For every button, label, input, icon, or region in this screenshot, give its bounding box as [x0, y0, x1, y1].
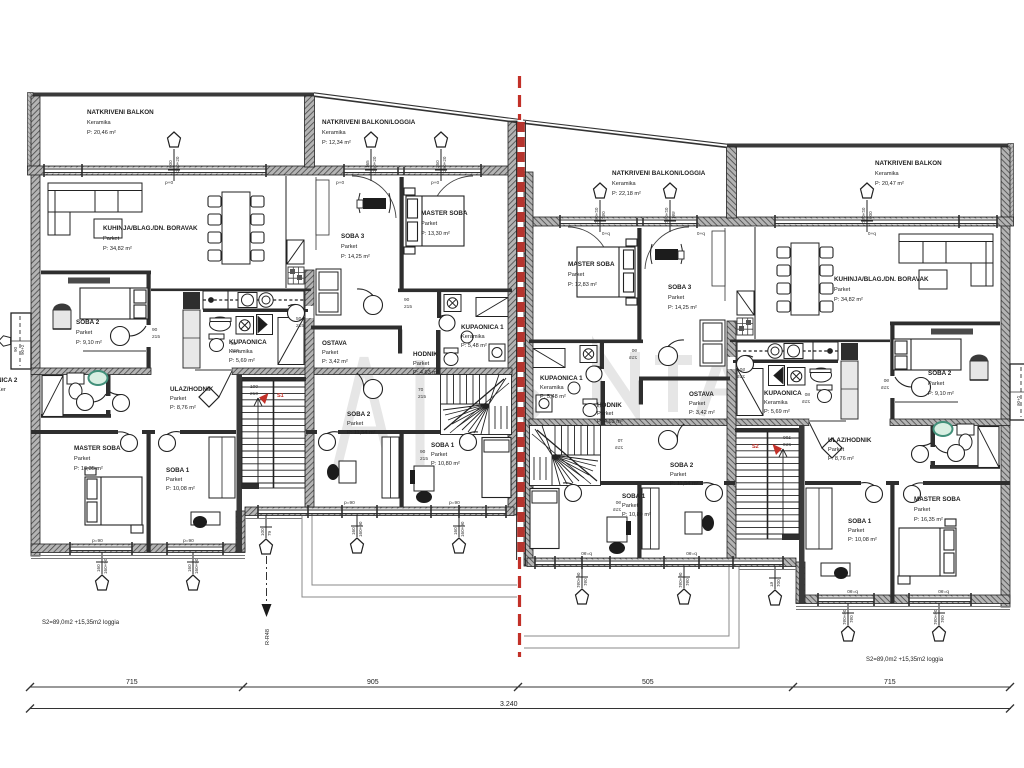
svg-text:90: 90 — [420, 449, 426, 455]
svg-text:79: 79 — [267, 530, 272, 536]
svg-text:SOBA 1: SOBA 1 — [848, 518, 872, 525]
section marker R-R48 — [262, 556, 272, 645]
svg-text:Parket: Parket — [670, 472, 687, 478]
svg-text:P: 11,54 m²: P: 11,54 m² — [670, 481, 699, 487]
svg-text:250: 250 — [435, 160, 440, 168]
top parapet wall — [29, 93, 314, 97]
svg-text:p=90: p=90 — [92, 538, 103, 544]
svg-text:p+0: p+0 — [336, 180, 344, 186]
svg-text:Parket: Parket — [322, 350, 339, 356]
svg-text:90: 90 — [152, 327, 158, 333]
svg-text:OSTAVA: OSTAVA — [689, 391, 714, 398]
svg-text:90: 90 — [404, 297, 410, 303]
svg-text:Keramika: Keramika — [87, 120, 112, 126]
svg-text:50: 50 — [296, 316, 302, 322]
svg-text:KUHINJA/BLAG./DN. BORAVAK: KUHINJA/BLAG./DN. BORAVAK — [103, 225, 198, 232]
svg-text:Parket: Parket — [421, 221, 438, 227]
svg-text:SOBA 1: SOBA 1 — [622, 493, 646, 500]
svg-text:NICA 2: NICA 2 — [0, 377, 18, 384]
svg-text:100: 100 — [260, 528, 265, 536]
window bay left — [0, 313, 31, 369]
soba1-c bed/desk — [482, 438, 511, 498]
svg-text:Parket: Parket — [76, 330, 93, 336]
svg-text:250+20: 250+20 — [442, 156, 447, 172]
svg-text:P: 8,76 m²: P: 8,76 m² — [170, 405, 196, 411]
terrace outline — [302, 516, 517, 597]
svg-text:MASTER SOBA: MASTER SOBA — [914, 496, 961, 503]
rotated dim texts at pentagons — [13, 156, 465, 574]
bath2 fixtures — [42, 376, 63, 417]
SOBA3 closet lines — [315, 177, 317, 250]
svg-text:90: 90 — [13, 346, 18, 352]
svg-text:P: 22,18 m²: P: 22,18 m² — [612, 191, 641, 197]
svg-text:P: 20,46 m²: P: 20,46 m² — [87, 130, 116, 136]
svg-text:215: 215 — [404, 304, 412, 310]
svg-text:P: 34,82 m²: P: 34,82 m² — [834, 297, 863, 303]
soba1-left wardrobe/desk — [209, 437, 235, 498]
svg-text:P: 4,63 m²: P: 4,63 m² — [597, 419, 623, 425]
svg-text:P: 4,63 m²: P: 4,63 m² — [413, 370, 439, 376]
fridge block — [316, 269, 341, 315]
svg-text:NATKRIVENI BALKON: NATKRIVENI BALKON — [87, 109, 154, 116]
svg-text:Parket: Parket — [166, 477, 183, 483]
svg-text:215: 215 — [296, 323, 304, 329]
svg-text:Keramika: Keramika — [540, 385, 565, 391]
svg-text:160+90: 160+90 — [194, 558, 199, 574]
room labels left — [0, 109, 504, 492]
svg-text:210: 210 — [250, 391, 258, 397]
svg-text:160+90: 160+90 — [103, 558, 108, 574]
svg-text:P: 34,82 m²: P: 34,82 m² — [103, 246, 132, 252]
svg-text:P: 16,35 m²: P: 16,35 m² — [74, 466, 103, 472]
svg-text:250+20: 250+20 — [175, 156, 180, 172]
svg-text:P: 8,76 m²: P: 8,76 m² — [828, 456, 854, 462]
svg-text:MASTER SOBA: MASTER SOBA — [568, 261, 615, 268]
balcony doors opening — [344, 167, 481, 175]
svg-text:215: 215 — [420, 456, 428, 462]
balcony door swing arcs — [352, 176, 396, 218]
soba2-c desk/wardrobe — [339, 461, 356, 483]
svg-text:505: 505 — [642, 679, 654, 686]
SOBA3 tv — [363, 198, 386, 209]
svg-text:Parket: Parket — [103, 236, 120, 242]
svg-text:Parket: Parket — [413, 361, 430, 367]
svg-text:100: 100 — [250, 384, 258, 390]
window ticks — [44, 164, 506, 555]
svg-text:165: 165 — [365, 160, 370, 168]
svg-text:p+0: p+0 — [431, 180, 439, 186]
svg-text:P: 9,10 m²: P: 9,10 m² — [76, 340, 102, 346]
svg-text:KUHINJA/BLAG./DN. BORAVAK: KUHINJA/BLAG./DN. BORAVAK — [834, 276, 929, 283]
svg-text:SOBA 2: SOBA 2 — [928, 370, 952, 377]
svg-text:90+2: 90+2 — [20, 344, 25, 355]
svg-text:715: 715 — [126, 679, 138, 686]
small labels — [92, 180, 460, 544]
svg-text:P: 14,25 m²: P: 14,25 m² — [341, 254, 370, 260]
svg-text:250+20: 250+20 — [372, 156, 377, 172]
svg-text:160+90: 160+90 — [460, 521, 465, 537]
stair bay left wall — [237, 374, 243, 552]
svg-text:NATKRIVENI BALKON/LOGGIA: NATKRIVENI BALKON/LOGGIA — [322, 119, 416, 126]
svg-text:Keramika: Keramika — [612, 181, 637, 187]
svg-text:MASTER SOBA: MASTER SOBA — [74, 445, 121, 452]
party-side wall of unit — [508, 121, 517, 515]
central vertical hatched wall — [305, 270, 314, 507]
svg-text:SOBA 3: SOBA 3 — [668, 284, 692, 291]
dimension lines — [26, 683, 1014, 713]
svg-text:P: 12,34 m²: P: 12,34 m² — [322, 140, 351, 146]
svg-text:P: 5,69 m²: P: 5,69 m² — [764, 409, 790, 415]
watermark — [337, 352, 744, 468]
svg-text:Parket: Parket — [597, 411, 614, 417]
red entrance arrow — [259, 393, 269, 404]
party wall red band — [517, 121, 526, 566]
svg-text:Keramika: Keramika — [322, 130, 347, 136]
window in balcony wall — [44, 168, 266, 174]
svg-text:P: 16,35 m²: P: 16,35 m² — [914, 517, 943, 523]
svg-text:160: 160 — [453, 527, 458, 535]
svg-text:p=90: p=90 — [183, 538, 194, 544]
svg-text:P: 3,42 m²: P: 3,42 m² — [322, 359, 348, 365]
room labels right — [540, 160, 961, 543]
svg-text:Keramika: Keramika — [461, 334, 486, 340]
svg-text:MASTER SOBA: MASTER SOBA — [421, 210, 468, 217]
svg-text:NATKRIVENI BALKON/LOGGIA: NATKRIVENI BALKON/LOGGIA — [612, 170, 706, 177]
svg-text:Parket: Parket — [848, 528, 865, 534]
svg-text:P: 12,83 m²: P: 12,83 m² — [568, 282, 597, 288]
svg-text:S1: S1 — [277, 393, 284, 399]
balcony bottom wall — [28, 166, 517, 175]
svg-text:Parket: Parket — [170, 396, 187, 402]
svg-text:Parket: Parket — [914, 507, 931, 513]
svg-text:P: 13,30 m²: P: 13,30 m² — [421, 231, 450, 237]
interior hatched wall mid — [31, 368, 151, 375]
furniture: living room — [48, 176, 304, 288]
red centerline dashes — [518, 76, 521, 120]
svg-text:715: 715 — [884, 679, 896, 686]
svg-text:P: 10,08 m²: P: 10,08 m² — [848, 537, 877, 543]
svg-text:P: 5,69 m²: P: 5,69 m² — [229, 358, 255, 364]
left exterior wall — [31, 96, 40, 556]
svg-text:SOBA 2: SOBA 2 — [670, 462, 694, 469]
svg-text:KUPAONICA: KUPAONICA — [229, 339, 267, 346]
svg-text:SOBA 1: SOBA 1 — [431, 442, 455, 449]
kitchen counter — [203, 291, 304, 309]
winder staircase — [441, 375, 512, 435]
svg-text:Parket: Parket — [928, 381, 945, 387]
svg-text:P: 11,54 m²: P: 11,54 m² — [347, 430, 376, 436]
svg-text:P: 5,48 m²: P: 5,48 m² — [540, 394, 566, 400]
svg-text:KUPAONICA 1: KUPAONICA 1 — [540, 375, 583, 382]
tall cupboard — [183, 310, 200, 368]
svg-text:Ker: Ker — [0, 387, 6, 393]
svg-text:600: 600 — [168, 160, 173, 168]
svg-text:P: 14,25 m²: P: 14,25 m² — [668, 305, 697, 311]
svg-text:Parket: Parket — [74, 456, 91, 462]
svg-text:ULAZ/HODNIK: ULAZ/HODNIK — [828, 437, 872, 444]
svg-text:Keramika: Keramika — [229, 349, 254, 355]
svg-text:SOBA 2: SOBA 2 — [347, 411, 371, 418]
svg-text:160: 160 — [187, 564, 192, 572]
svg-text:160: 160 — [351, 527, 356, 535]
step wall between A and B — [236, 511, 245, 552]
master-top bed — [404, 188, 464, 254]
svg-text:S2: S2 — [752, 444, 759, 450]
left balcony parapet — [28, 93, 34, 169]
svg-text:SOBA 1: SOBA 1 — [166, 467, 190, 474]
bottom wall B — [245, 507, 514, 516]
svg-text:HODNIK: HODNIK — [597, 402, 622, 409]
svg-text:p+0: p+0 — [165, 180, 173, 186]
svg-text:Parket: Parket — [568, 272, 585, 278]
svg-text:Parket: Parket — [622, 503, 639, 509]
svg-text:SOBA 2: SOBA 2 — [76, 319, 100, 326]
interior black walls — [31, 177, 512, 552]
svg-text:905: 905 — [367, 679, 379, 686]
svg-text:160+90: 160+90 — [358, 521, 363, 537]
svg-text:Parket: Parket — [689, 401, 706, 407]
svg-text:Parket: Parket — [341, 244, 358, 250]
svg-text:Parket: Parket — [431, 452, 448, 458]
svg-text:160: 160 — [96, 564, 101, 572]
svg-text:p=90: p=90 — [344, 500, 355, 506]
svg-text:SOBA 3: SOBA 3 — [341, 233, 365, 240]
svg-text:P: 10,80 m²: P: 10,80 m² — [622, 512, 651, 518]
soba2-left bed + plant — [80, 288, 148, 319]
svg-text:R-R48: R-R48 — [265, 629, 271, 645]
facade face lines — [31, 519, 302, 559]
svg-text:70: 70 — [418, 387, 424, 393]
svg-text:ULAZ/HODNIK: ULAZ/HODNIK — [170, 386, 214, 393]
svg-text:215: 215 — [152, 334, 160, 340]
master-bottom bed — [85, 468, 143, 533]
kupaonica1 fixtures — [444, 295, 508, 366]
balcony divider wall — [305, 96, 315, 167]
hall entrance diamond + door — [199, 387, 219, 407]
svg-text:KUPAONICA 1: KUPAONICA 1 — [461, 324, 504, 331]
svg-text:P: 5,48 m²: P: 5,48 m² — [461, 343, 487, 349]
svg-text:KUPAONICA: KUPAONICA — [764, 390, 802, 397]
svg-text:NATKRIVENI BALKON: NATKRIVENI BALKON — [875, 160, 942, 167]
svg-text:Parket: Parket — [668, 295, 685, 301]
svg-text:Parket: Parket — [347, 421, 364, 427]
svg-text:Parket: Parket — [834, 287, 851, 293]
straight staircase — [242, 381, 305, 488]
svg-text:215: 215 — [418, 394, 426, 400]
svg-text:P: 3,42 m²: P: 3,42 m² — [689, 410, 715, 416]
svg-text:OSTAVA: OSTAVA — [322, 340, 347, 347]
kitchen corner checker — [288, 267, 304, 284]
pentagon markers with stems — [96, 149, 465, 574]
svg-text:P: 10,80 m²: P: 10,80 m² — [431, 461, 460, 467]
svg-text:Parket: Parket — [828, 447, 845, 453]
doors: circles + arcs — [77, 289, 479, 452]
svg-text:P: 20,47 m²: P: 20,47 m² — [875, 181, 904, 187]
bottom wall A — [31, 544, 245, 553]
svg-text:HODNIK: HODNIK — [413, 351, 438, 358]
rooflines — [314, 93, 727, 148]
kupaonica-mid fixtures — [209, 315, 304, 365]
svg-text:P: 9,10 m²: P: 9,10 m² — [928, 391, 954, 397]
svg-text:Keramika: Keramika — [875, 171, 900, 177]
svg-text:S2=89,0m2 +15,35m2 loggia: S2=89,0m2 +15,35m2 loggia — [42, 620, 120, 626]
svg-text:P: 10,08 m²: P: 10,08 m² — [166, 486, 195, 492]
svg-text:S2=89,0m2 +15,35m2 loggia: S2=89,0m2 +15,35m2 loggia — [866, 657, 944, 663]
svg-text:3.240: 3.240 — [500, 701, 518, 708]
svg-text:Keramika: Keramika — [764, 400, 789, 406]
